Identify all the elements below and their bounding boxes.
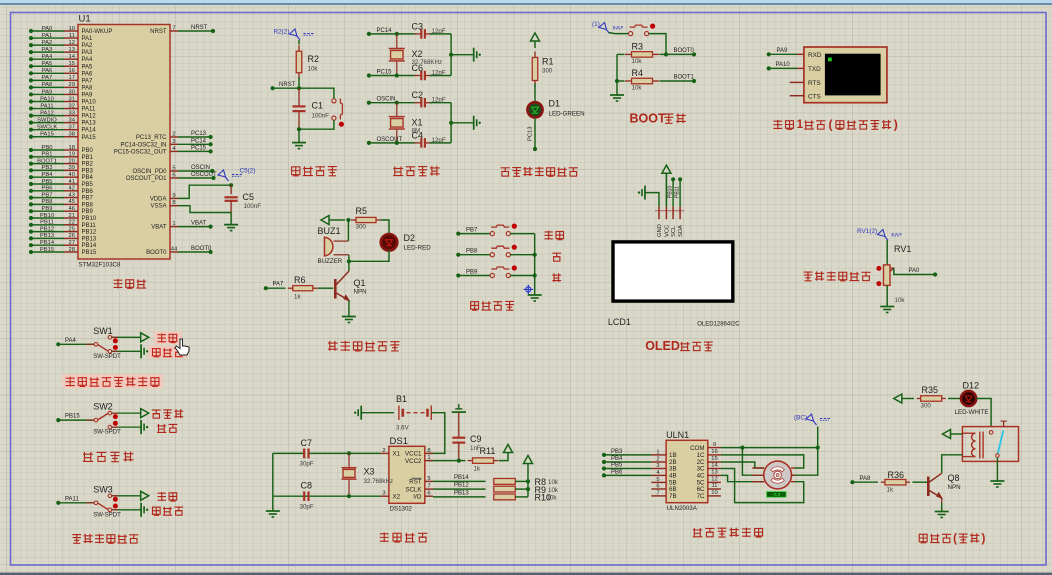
ground BOOT circuit	[610, 94, 624, 96]
capacitor C8 30pF plates	[303, 491, 305, 501]
svg-text:PA7: PA7	[42, 75, 53, 81]
wire PB8 to key	[456, 253, 460, 257]
svg-text:4B: 4B	[669, 473, 677, 480]
wire rail to ground X1	[451, 122, 474, 124]
wire RST to PB14 and R8	[433, 480, 486, 482]
svg-text:2: 2	[656, 457, 659, 463]
svg-text:PA5: PA5	[42, 61, 53, 67]
svg-text:7: 7	[656, 490, 659, 496]
svg-text:BOOT0: BOOT0	[146, 250, 167, 256]
resistor R9 10k	[493, 488, 495, 490]
label SW3 top state (CJK)	[157, 492, 165, 501]
svg-text:PA8: PA8	[42, 82, 53, 88]
reset push button	[332, 99, 336, 103]
svg-text:10k: 10k	[547, 495, 558, 502]
node rail mid X2	[449, 53, 453, 57]
wire key PB9 to right rail	[510, 275, 534, 277]
svg-text:OSCIN_PD0: OSCIN_PD0	[132, 169, 167, 175]
svg-text:PB5: PB5	[42, 179, 53, 185]
wire 4C to motor left-bottom	[721, 475, 764, 481]
svg-text:PC15: PC15	[191, 145, 207, 151]
svg-text:I/O: I/O	[413, 493, 421, 500]
label fuwei dianlu reset circuit (CJK)	[292, 167, 300, 176]
wire X1 row with C7	[273, 452, 381, 454]
OLED LCD1 display body	[613, 242, 733, 301]
svg-text:PA1: PA1	[42, 33, 53, 39]
svg-text:SW2: SW2	[93, 402, 113, 412]
svg-text:25: 25	[69, 226, 75, 232]
wire PA8 to R36	[850, 480, 854, 484]
svg-text:PB14: PB14	[82, 243, 97, 249]
svg-text:PB1: PB1	[82, 155, 94, 161]
wire RV1 bottom to ground	[886, 285, 888, 306]
label light data adjust (CJK)	[804, 272, 813, 281]
capacitor C4 12pF	[414, 142, 421, 144]
wire PA7 to R6	[264, 286, 268, 290]
svg-text:13: 13	[69, 47, 75, 53]
svg-text:R6: R6	[294, 275, 306, 285]
wire probe to RV1	[886, 240, 888, 265]
capacitor C5 100nF	[230, 185, 232, 194]
svg-text:PA1: PA1	[82, 36, 94, 42]
stepper speed display	[767, 492, 787, 498]
node BOOT0 junction	[664, 52, 668, 56]
wire SCLK to PB12 and R9	[433, 488, 486, 490]
svg-text:OSCOUT: OSCOUT	[191, 172, 217, 178]
capacitor C2 12pF	[414, 102, 421, 104]
svg-text:R4: R4	[632, 68, 644, 78]
svg-text:LCD1: LCD1	[608, 317, 631, 327]
svg-text:SW-SPDT: SW-SPDT	[93, 512, 121, 518]
wire relay common to ground	[996, 457, 998, 481]
wire PB15 to switch SW2	[56, 418, 60, 422]
ULN2003A left pin stubs names numbers	[651, 454, 666, 456]
wire 1C to motor right-top	[721, 455, 804, 468]
power terminal OLED VCC	[662, 165, 671, 173]
battery B1 3.6V	[361, 412, 394, 414]
svg-text:28: 28	[69, 247, 75, 253]
resistor R6 1k	[288, 287, 293, 289]
resistor R4 10k	[625, 80, 632, 82]
U1 left PB0-PB15 pin wires with terminals	[31, 149, 64, 151]
svg-text:PA7: PA7	[82, 78, 94, 84]
label pressure detect module (CJK)	[72, 535, 81, 544]
svg-text:BOOT0: BOOT0	[191, 246, 212, 252]
wire C6 to right rail	[430, 75, 451, 77]
wire battery plus to VCC1	[428, 413, 445, 454]
svg-text:C2: C2	[412, 90, 424, 100]
svg-text:12: 12	[711, 477, 717, 483]
svg-text:PA13: PA13	[82, 121, 97, 127]
svg-text:PB10: PB10	[82, 216, 97, 222]
svg-text:OSCIN: OSCIN	[191, 165, 210, 171]
svg-text:ULN2003A: ULN2003A	[667, 505, 698, 512]
wire NRST node to reset button	[299, 88, 334, 99]
ground relay	[990, 480, 1004, 482]
label infrared beam module (CJK)	[66, 377, 75, 387]
node C1 bottom junction	[297, 127, 301, 131]
wire right rail X1 group	[450, 103, 452, 143]
svg-text:BOOT1: BOOT1	[37, 158, 57, 164]
wire SCL pull with terminal	[671, 177, 675, 181]
svg-text:PC13: PC13	[191, 131, 207, 137]
svg-text:PB5: PB5	[82, 182, 94, 188]
wire right rail X2 group	[450, 34, 452, 76]
svg-text:X2: X2	[393, 493, 401, 500]
transistor Q1 NPN	[348, 261, 350, 271]
svg-text:SW1: SW1	[93, 326, 113, 336]
resistor R10 10k	[493, 496, 495, 498]
wire OSCOUT net	[178, 177, 213, 179]
svg-text:X1: X1	[393, 451, 401, 458]
ULN2003A right pin stubs names numbers	[708, 447, 721, 449]
svg-text:PB7: PB7	[42, 192, 53, 198]
svg-text:PC15: PC15	[377, 70, 393, 76]
svg-text:21: 21	[69, 213, 75, 219]
svg-text:C3: C3	[412, 21, 424, 31]
voltage probe (BC)	[806, 414, 831, 425]
wire rail to R4	[617, 80, 625, 82]
svg-text:C4: C4	[412, 130, 424, 140]
svg-text:): )	[982, 533, 986, 545]
node rail R9 junction	[526, 487, 530, 491]
node rail R8 junction	[526, 479, 530, 483]
wire R4 to BOOT1 terminal	[660, 80, 695, 82]
svg-text:6: 6	[656, 484, 659, 490]
wire D2 bottom to collector node	[349, 250, 389, 261]
label SW3 bottom state (CJK)	[152, 507, 160, 515]
node Q1 collector junction	[347, 259, 351, 263]
svg-text:PA15: PA15	[82, 135, 97, 141]
wire buzzer bottom to collector node	[348, 255, 350, 261]
svg-text:X1: X1	[412, 117, 423, 127]
capacitor C3 12pF	[414, 33, 421, 35]
wire button to BOOT0 row	[649, 34, 666, 55]
svg-text:9: 9	[172, 193, 175, 199]
svg-text:PA0: PA0	[42, 26, 53, 32]
ground SW3	[140, 503, 142, 517]
svg-text:32.768kHz: 32.768kHz	[364, 478, 394, 485]
svg-text:7: 7	[172, 26, 175, 32]
svg-text:PA2: PA2	[82, 43, 94, 49]
power terminal R11	[504, 445, 513, 453]
ground clock module	[266, 510, 280, 512]
ground SW2	[140, 420, 142, 434]
relay RL1 body	[962, 427, 1018, 462]
svg-text:PB7: PB7	[82, 196, 94, 202]
wire IO to PB13 and R10	[433, 496, 486, 498]
wire power to R1	[534, 41, 536, 48]
voltage probe RV1(2)	[878, 230, 903, 241]
svg-text:14: 14	[69, 54, 76, 60]
svg-text:PA0: PA0	[909, 268, 921, 274]
wire PB9 to key	[456, 273, 460, 277]
bottom window strip	[0, 573, 1052, 575]
svg-text:PA7: PA7	[273, 282, 285, 288]
svg-text:13: 13	[711, 470, 717, 476]
wire Q8 emitter to ground	[941, 503, 943, 512]
wire PC14 row	[367, 32, 371, 36]
wire keys right rail	[534, 234, 536, 295]
svg-text:PA3: PA3	[82, 50, 94, 56]
capacitor C6 12pF	[414, 75, 421, 77]
wire COM junction to motor center-left tap	[742, 448, 764, 476]
svg-text:OSCOUT: OSCOUT	[377, 137, 403, 143]
svg-text:GND: GND	[657, 224, 663, 237]
svg-text:100nF: 100nF	[244, 203, 262, 210]
svg-text:TXD: TXD	[808, 66, 821, 73]
wire COM row with junctions	[721, 447, 818, 449]
svg-text:D1: D1	[549, 99, 561, 109]
svg-text:BOOT0: BOOT0	[674, 48, 695, 54]
wire BOOT0 net from U1	[178, 251, 210, 253]
wire SW2 bottom throw to ground	[112, 426, 141, 428]
ground SW1	[140, 344, 142, 358]
power terminal alarm rail	[321, 216, 329, 225]
svg-text:PA8: PA8	[860, 476, 872, 482]
voltage probe R2(2)	[290, 29, 315, 40]
origin marker blue	[524, 285, 533, 294]
wire PA11 to switch SW3	[56, 501, 60, 505]
svg-text:5: 5	[427, 476, 430, 482]
stepper motor pin stubs	[752, 467, 764, 469]
transistor Q8 NPN	[927, 477, 930, 497]
ground flag OLED GND	[644, 186, 646, 200]
wire buzzer top to rail	[347, 220, 349, 241]
svg-text:10: 10	[711, 490, 717, 496]
label SW2 top state (CJK)	[152, 410, 161, 418]
battery left flag terminal	[360, 406, 362, 420]
wire R6 to Q1 base	[318, 287, 333, 289]
svg-text:PB4: PB4	[82, 175, 94, 181]
svg-text:ULN1: ULN1	[666, 430, 689, 440]
node buzzer top junction	[346, 218, 350, 222]
svg-text:PB11: PB11	[675, 186, 681, 198]
wire probe down to COM row	[817, 427, 819, 448]
wire R36 to Q8 base	[912, 481, 927, 483]
wire VCC2 row	[428, 460, 459, 462]
svg-text:C5(2): C5(2)	[240, 168, 256, 175]
svg-text:C7: C7	[301, 438, 313, 448]
ground X2 group	[473, 48, 475, 62]
svg-text:NRST: NRST	[150, 29, 167, 35]
svg-text:PB8: PB8	[82, 202, 94, 208]
svg-text:PC14: PC14	[191, 138, 207, 144]
svg-text:RV1(2): RV1(2)	[857, 228, 877, 235]
wire OSCIN net	[178, 170, 212, 172]
svg-text:VCC1: VCC1	[405, 451, 422, 458]
wire key PB8 to right rail	[510, 254, 534, 256]
svg-text:PC14-OSC32_IN: PC14-OSC32_IN	[120, 142, 166, 148]
svg-text:PA11: PA11	[82, 107, 96, 113]
LED D12 LED-WHITE	[961, 391, 976, 406]
wire pullup rail	[527, 464, 529, 497]
svg-text:RXD: RXD	[808, 52, 822, 59]
svg-text:R5: R5	[356, 206, 368, 216]
ground reset circuit	[292, 142, 306, 144]
wire 3C to bottom rail to motor right-bottom	[721, 469, 804, 503]
wire VCC down to pin	[665, 173, 667, 207]
highlight boxes SW1	[154, 332, 182, 344]
svg-text:LED-GREEN: LED-GREEN	[549, 111, 585, 118]
node NRST junction	[297, 86, 301, 90]
wire PC14 net	[178, 143, 210, 145]
svg-text:PA11: PA11	[65, 496, 79, 502]
svg-text:PB13: PB13	[82, 236, 97, 242]
label program running indicator (CJK)	[501, 168, 510, 176]
svg-text:PB12: PB12	[454, 483, 469, 489]
svg-text:PB12: PB12	[82, 230, 97, 236]
wire VBAT net	[178, 226, 210, 228]
wire NRST row with terminal	[273, 87, 299, 89]
svg-text:OSCIN: OSCIN	[377, 97, 396, 103]
IC U1 STM32F103C8 body	[78, 25, 170, 260]
svg-text:31: 31	[69, 96, 75, 102]
svg-text:2: 2	[382, 448, 385, 454]
terminal CTS pin stub	[790, 95, 804, 97]
svg-text:RST: RST	[409, 479, 422, 486]
svg-text:PB0: PB0	[82, 148, 94, 154]
svg-text:SW-SPDT: SW-SPDT	[93, 430, 121, 436]
svg-text:10k: 10k	[632, 85, 643, 92]
push button key PB9	[490, 273, 494, 277]
wire D1 to PC13 terminal	[534, 117, 536, 149]
svg-text:11: 11	[711, 483, 717, 489]
label alarm circuit (CJK)	[328, 341, 338, 351]
svg-text:37: 37	[69, 125, 75, 131]
svg-text:PA6: PA6	[82, 71, 94, 77]
node crystal bottom junction X1	[395, 141, 399, 145]
stepper motor body	[764, 461, 792, 489]
svg-text:10k: 10k	[548, 479, 559, 486]
top window strip	[0, 0, 1052, 3]
wire power to coil left pin	[951, 433, 963, 435]
label shezhi set key (CJK)	[544, 231, 552, 240]
wire PC13 net	[178, 136, 210, 138]
svg-text:1C: 1C	[697, 452, 705, 459]
svg-text:LED-RED: LED-RED	[404, 245, 432, 252]
svg-text:OLED12864I2C: OLED12864I2C	[697, 322, 740, 328]
label SW1 top state (CJK)	[157, 333, 165, 342]
svg-text:PB0: PB0	[42, 145, 53, 151]
svg-text:PB10: PB10	[668, 186, 674, 198]
svg-text:PA4: PA4	[65, 338, 77, 344]
wire SW2 top throw to power terminal	[112, 412, 141, 414]
wire PB7 to key	[456, 232, 460, 236]
wire C3 to right rail	[430, 33, 451, 35]
svg-text:8: 8	[427, 448, 430, 454]
svg-text:PC13: PC13	[528, 126, 534, 141]
mouse cursor hand	[175, 339, 189, 355]
svg-text:15: 15	[711, 456, 717, 462]
wire R2 to NRST node	[298, 77, 300, 88]
svg-text:PB3: PB3	[42, 165, 53, 171]
wire PC15 row	[367, 73, 371, 77]
svg-text:PB6: PB6	[82, 189, 94, 195]
svg-text:38: 38	[69, 132, 75, 138]
svg-text:PB7: PB7	[466, 227, 478, 233]
svg-text:3: 3	[172, 139, 175, 145]
svg-text:PC15-OSC32_OUT: PC15-OSC32_OUT	[114, 149, 167, 155]
ground above C9	[452, 411, 466, 413]
svg-text:PB14: PB14	[454, 475, 469, 481]
svg-text:1: 1	[427, 455, 430, 461]
svg-text:PB9: PB9	[466, 269, 478, 275]
wire coil bottom to Q8 collector	[942, 455, 963, 474]
push button key PB8	[490, 253, 494, 257]
wire SDA pull with terminal	[678, 177, 682, 181]
svg-text:R3: R3	[632, 42, 644, 52]
svg-text:300: 300	[542, 68, 553, 75]
svg-text:PB11: PB11	[40, 220, 54, 226]
svg-text:7: 7	[427, 484, 430, 490]
svg-text:43: 43	[69, 192, 75, 198]
svg-text:BOOT: BOOT	[630, 112, 666, 126]
svg-text:X2: X2	[412, 49, 423, 59]
svg-text:14: 14	[711, 463, 718, 469]
label zhuxinpian main chip (CJK)	[114, 279, 123, 288]
wire left rail C7 C8	[272, 453, 274, 496]
svg-text:3: 3	[382, 491, 385, 497]
svg-text:SW-SPDT: SW-SPDT	[93, 354, 121, 360]
DS1302 pin stubs and numbers	[380, 452, 389, 454]
wire C4 to right rail	[430, 142, 451, 144]
svg-text:NPN: NPN	[354, 289, 367, 296]
node rail mid X1	[449, 121, 453, 125]
wire SW1 top throw to power terminal	[112, 336, 141, 338]
svg-text:PB6: PB6	[611, 469, 623, 475]
svg-text:16: 16	[711, 449, 717, 455]
svg-text:NRST: NRST	[191, 25, 208, 31]
capacitor C1 100nF	[298, 88, 300, 106]
wire rail to ground X2	[451, 54, 474, 56]
svg-text:5: 5	[656, 477, 659, 483]
label SW1 bottom state (CJK)	[152, 349, 160, 357]
virtual terminal VT1 body	[804, 47, 887, 103]
svg-text:3.6V: 3.6V	[396, 425, 410, 432]
svg-text:PA10: PA10	[776, 62, 791, 68]
svg-text:VCC: VCC	[664, 225, 670, 237]
svg-text:17: 17	[69, 75, 75, 81]
wire X2 row with C8	[273, 495, 381, 497]
svg-text:VCC2: VCC2	[405, 458, 422, 465]
svg-text:PC13_RTC: PC13_RTC	[136, 135, 167, 141]
wire SW3 bottom throw to ground	[112, 509, 141, 511]
label jian minus key (CJK)	[552, 273, 561, 282]
svg-text:100nF: 100nF	[312, 113, 330, 120]
terminal RTS pin stub	[790, 81, 804, 83]
wire GND flag to GND pin	[645, 193, 659, 207]
voltage probe C5(2)	[218, 170, 243, 181]
svg-text:VSSA: VSSA	[150, 204, 166, 210]
label independent keys (CJK)	[471, 302, 479, 311]
wire VDDA to C5 top node	[178, 185, 231, 198]
ground alarm circuit	[342, 316, 356, 318]
resistor R3 10k	[625, 53, 632, 55]
svg-text:10k: 10k	[632, 58, 643, 65]
svg-text:39: 39	[69, 165, 75, 171]
svg-text:PA15: PA15	[40, 132, 54, 138]
resistor R36 1k	[881, 481, 885, 483]
svg-text:Q1: Q1	[354, 278, 366, 288]
svg-text:(: (	[953, 533, 957, 545]
crystal X1 8M	[396, 103, 398, 117]
svg-text:29: 29	[69, 82, 75, 88]
svg-text:11: 11	[69, 33, 75, 39]
node R4 left junction	[615, 79, 619, 83]
IC ULN1 ULN2003A body	[666, 440, 708, 502]
svg-text:27: 27	[69, 240, 75, 246]
